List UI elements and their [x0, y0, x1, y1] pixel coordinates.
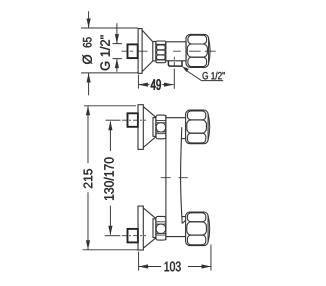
knurled nut K1 bands — [156, 44, 166, 60]
dimension D2 arrowheads — [115, 34, 119, 68]
dimension D3 "49" extension lines — [137, 75, 139, 89]
top hex nut K2 facet lines — [156, 120, 166, 133]
dimension D2 "G 1/2" ticks at stub — [113, 44, 122, 59]
top hex nut K2 mid facet pillow — [156, 123, 165, 132]
dimension text T7 "103" — [165, 262, 181, 272]
label T2 "G 1/2 inch" rotated — [100, 35, 110, 70]
dimension D1 arrowheads — [87, 19, 91, 83]
hex cap C1 outline (side view) — [186, 34, 209, 67]
bottom neck cylinder N3 — [153, 219, 156, 238]
knurled nut K1 outline (side view) — [156, 41, 166, 63]
bottom hex cap C3 outline — [186, 212, 209, 246]
tube to bottom cap fillet — [182, 220, 186, 223]
top hex nut K2 outline — [156, 115, 166, 139]
top wall stub S2 centerline — [122, 119, 146, 121]
dimension D4 line segments — [87, 106, 89, 250]
bottom wall stub S3 centerline — [122, 235, 146, 237]
dimension D5 line segments — [109, 122, 111, 235]
bottom hex cap C3 facet pillows — [187, 213, 205, 222]
dimension text T5 "215" rotated — [84, 169, 93, 188]
outlet port P1 below body (side view) — [168, 61, 182, 66]
valve body B1 (side view) — [166, 42, 186, 61]
bottom wall stub S3 (bold square) — [128, 229, 138, 243]
dimension D3 line segments — [138, 84, 173, 86]
wire centerline of top (side) view — [122, 50, 216, 52]
bottom hex nut K3 facet lines — [156, 222, 166, 235]
bottom hex nut K3 mid facet pillow — [156, 224, 165, 233]
dimension D5 "130/170" tick bottom — [105, 235, 121, 237]
tube left edge (straight) — [165, 115, 167, 240]
bottom hex cap C3 right silhouette arc — [208, 215, 210, 243]
dimension text T3 "49" — [151, 79, 161, 89]
bottom hex nut K3 outline — [156, 216, 166, 240]
dimension D6 "103" left extension line — [138, 252, 140, 271]
escutcheon flange E1 face (side view) — [138, 29, 142, 74]
tube right edge (S-curve) — [181, 127, 183, 223]
neck cylinder N1 (side view) — [153, 42, 156, 61]
mid centerline between unions — [161, 177, 188, 179]
dimension D5 "130/170" tick top — [106, 119, 121, 121]
top body B2 top edge — [166, 117, 186, 119]
bottom body B3 bottom edge — [166, 236, 186, 238]
top neck cylinder N2 — [153, 118, 156, 137]
top hex cap C2 facet pillows — [187, 111, 205, 120]
leader L1 line and shoulder — [185, 70, 223, 81]
dimension D4 "215" top extension line — [84, 105, 136, 107]
dimension D6 line segments — [139, 266, 211, 268]
dimension D6 arrowheads — [139, 264, 211, 268]
leader L1 arrowhead to outlet — [182, 66, 189, 72]
top hex cap C2 right silhouette arc — [208, 113, 210, 141]
hex cap C1 right silhouette arc — [208, 37, 210, 65]
top escutcheon cone E2 — [143, 107, 156, 148]
dimension D2 arrow tails — [116, 23, 118, 72]
top body B2 partial bottom edge — [182, 138, 186, 140]
dimension D6 "103" right extension line — [210, 245, 212, 271]
top hex cap C2 outline — [186, 110, 209, 144]
knurled nut K1 pillows — [157, 45, 166, 60]
bottom escutcheon flange E3 face — [138, 206, 143, 250]
top wall stub S2 (bold square) — [128, 113, 138, 127]
label T1 "Ø 65" rotated — [82, 37, 92, 64]
dimension D4 "215" bottom extension line — [83, 249, 139, 251]
dimension text T6 "130/170" rotated — [104, 157, 114, 200]
label T4 "G 1/2 inch" horizontal — [203, 72, 225, 80]
dimension D1 arrow tails — [88, 11, 90, 95]
top escutcheon flange E2 face — [138, 105, 143, 150]
bottom body B3 partial top edge — [182, 216, 186, 218]
bottom escutcheon cone E3 — [143, 208, 156, 248]
escutcheon cone E1 (side view) — [142, 30, 153, 71]
outlet vertical centerline — [173, 57, 175, 66]
dimension D3 arrowheads — [138, 83, 173, 87]
dimension D5 arrowheads — [108, 121, 112, 235]
dimension D4 arrowheads — [86, 106, 90, 250]
hex cap C1 facet pillows (side view) — [188, 35, 207, 44]
dimension D1 "Ø 65" extension lines — [81, 28, 138, 73]
wall stub S1 (side view, bold square) — [128, 44, 138, 58]
